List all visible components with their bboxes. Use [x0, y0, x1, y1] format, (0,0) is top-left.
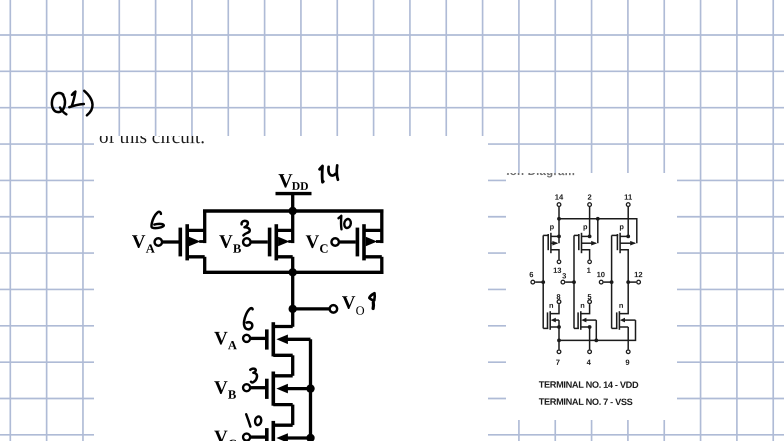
- input terminal circle Q2 (V_B): [243, 238, 251, 246]
- wire NMOS body bus: [309, 339, 312, 441]
- pin 14 terminal (top): [555, 193, 564, 207]
- junction dot gate line 3: [610, 280, 614, 284]
- wire bottom rail (PMOS drains): [203, 271, 384, 274]
- pin 12 terminal and lead: [628, 270, 642, 284]
- svg-text:V: V: [219, 232, 233, 253]
- junction dot VDD / top rail: [289, 207, 297, 215]
- svg-text:p: p: [619, 222, 624, 231]
- note TERMINAL NO. 14 - VDD: [539, 380, 639, 390]
- label V_A (PMOS input): [132, 232, 155, 256]
- svg-text:V: V: [214, 378, 228, 399]
- handwritten pin number 14 at VDD: [320, 165, 338, 182]
- pasted white screenshot: main CMOS circuit: [94, 136, 488, 441]
- svg-text:p: p: [583, 222, 588, 231]
- svg-text:A: A: [228, 338, 237, 352]
- label V_C (NMOS input): [214, 427, 237, 441]
- svg-text:TERMINAL NO. 14 - VDD: TERMINAL NO. 14 - VDD: [539, 380, 639, 390]
- wire pin lead into P1: [558, 207, 560, 243]
- pin 11 terminal (top): [624, 193, 633, 207]
- junction dot bottom rail / output: [289, 268, 297, 276]
- wire pin lead into P3: [627, 207, 629, 236]
- junction dot output node: [289, 305, 297, 313]
- wire output vertical: [291, 272, 294, 327]
- nmos transistor Q5 (V_B): [267, 372, 311, 426]
- wire gate lead Q1 (V_A): [163, 240, 179, 243]
- svg-text:V: V: [214, 328, 228, 349]
- label V_A (NMOS input): [214, 328, 237, 352]
- svg-text:n: n: [580, 301, 585, 310]
- input terminal circle V_B (NMOS): [243, 384, 250, 391]
- svg-text:6: 6: [529, 270, 533, 279]
- nmos transistor N2: [574, 282, 598, 349]
- nmos transistor Q6 (V_C): [267, 421, 311, 441]
- pin 1 terminal: [587, 260, 592, 275]
- handwritten W/L at NMOS Q5 (V_B): [250, 369, 257, 383]
- handwritten W/L 6 at PMOS Q1 (V_A): [151, 212, 163, 228]
- wire PMOS P2 body tie vertical: [597, 219, 599, 243]
- pin 6 terminal and lead: [529, 270, 543, 284]
- svg-text:B: B: [233, 242, 242, 256]
- pin 13 terminal: [553, 260, 561, 275]
- junction dot source P2: [588, 235, 592, 239]
- junction dot gate line 2: [572, 280, 576, 284]
- pmos transistor Q2 (V_B): [270, 211, 293, 272]
- svg-text:12: 12: [634, 270, 642, 279]
- handwritten W/L at NMOS Q4 (V_A): [244, 308, 253, 329]
- pin 7 terminal (bottom): [556, 350, 561, 367]
- label p (P1): [550, 222, 555, 231]
- pin 2 terminal (top): [587, 193, 591, 207]
- handwritten pin number 8 at V_O: [369, 293, 374, 308]
- junction dot pin14/VDD bus: [557, 217, 561, 221]
- label V_B (PMOS input): [219, 232, 242, 256]
- label p (P2): [583, 222, 588, 231]
- wire VDD to PMOS rail: [291, 194, 294, 211]
- wire gate lead V_A (NMOS): [251, 337, 265, 340]
- label V_C (PMOS input): [305, 232, 328, 256]
- wire gate lead V_C (NMOS): [251, 435, 265, 438]
- input terminal circle Q1 (V_A): [155, 238, 163, 246]
- handwritten W/L 10 at PMOS Q3 (V_C): [339, 216, 351, 230]
- nmos transistor N1: [543, 282, 561, 349]
- label V_B (NMOS input): [214, 378, 237, 402]
- wire pin lead into P2: [589, 207, 591, 236]
- junction dot source P3: [626, 235, 630, 239]
- svg-text:DD: DD: [292, 180, 309, 193]
- svg-text:B: B: [228, 388, 237, 402]
- pmos transistor P2: [574, 233, 597, 282]
- wire gate lead Q3 (V_C): [340, 240, 356, 243]
- svg-text:10: 10: [597, 270, 605, 279]
- junction dot output node (pin 12): [626, 280, 630, 284]
- junction dot body bus at Q6: [306, 434, 314, 441]
- pin 10 terminal and lead: [597, 270, 612, 284]
- input terminal circle V_A (NMOS): [243, 335, 250, 342]
- svg-text:7: 7: [556, 358, 560, 367]
- wire gate lead V_B (NMOS): [251, 386, 265, 389]
- handwritten W/L at NMOS Q6 (V_C): [246, 414, 261, 426]
- svg-text:V: V: [214, 427, 228, 441]
- svg-text:2: 2: [587, 193, 591, 202]
- wire top rail (PMOS sources to VDD): [203, 209, 384, 212]
- svg-text:A: A: [146, 242, 155, 256]
- junction dot PMOS P2 body tie / VDD bus: [596, 217, 600, 221]
- label p (P3): [619, 222, 624, 231]
- wire VSS bus (right diagram): [559, 320, 636, 340]
- power symbol VDD bar: [276, 192, 312, 195]
- pmos transistor P1: [543, 233, 559, 282]
- svg-text:4: 4: [587, 358, 592, 367]
- note TERMINAL NO. 7 - VSS: [539, 397, 633, 407]
- svg-text:n: n: [549, 301, 554, 310]
- net label V_DD: [278, 170, 308, 193]
- svg-text:1: 1: [587, 266, 592, 275]
- wire to output terminal: [293, 307, 330, 310]
- pin 5 terminal: [587, 292, 592, 303]
- pin 8 terminal: [556, 292, 560, 303]
- svg-text:V: V: [305, 232, 319, 253]
- svg-text:O: O: [356, 304, 365, 318]
- wire VDD bus (right diagram): [559, 219, 637, 243]
- svg-text:V: V: [342, 293, 356, 314]
- wire gate lead Q2 (V_B): [251, 240, 267, 243]
- svg-text:13: 13: [553, 266, 561, 275]
- pmos transistor P3: [612, 233, 637, 282]
- nmos transistor Q4 (V_A): [267, 322, 311, 376]
- pin 3 terminal and lead: [561, 271, 574, 284]
- svg-text:n: n: [619, 301, 624, 310]
- svg-text:11: 11: [624, 193, 633, 202]
- input terminal circle V_C (NMOS): [243, 434, 250, 441]
- pmos transistor Q1 (V_A): [180, 211, 204, 272]
- svg-text:9: 9: [625, 358, 629, 367]
- pmos transistor Q3 (V_C): [357, 211, 381, 272]
- svg-text:14: 14: [555, 193, 564, 202]
- handwritten label Q1): [52, 91, 93, 116]
- svg-text:C: C: [228, 437, 237, 441]
- nmos transistor N3: [612, 282, 636, 349]
- svg-text:p: p: [550, 222, 555, 231]
- svg-text:V: V: [132, 232, 146, 253]
- junction dot source P1: [557, 235, 561, 239]
- output terminal circle V_O: [330, 305, 338, 313]
- junction dot gate line 1: [541, 280, 545, 284]
- handwritten W/L 3 at PMOS Q2 (V_B): [242, 221, 250, 236]
- input terminal circle Q3 (V_C): [331, 238, 339, 246]
- pin 4 terminal (bottom): [587, 350, 592, 367]
- svg-text:3: 3: [562, 271, 566, 280]
- label V_O: [342, 293, 365, 318]
- svg-text:C: C: [319, 242, 328, 256]
- junction dot body bus at Q5: [306, 384, 314, 392]
- svg-text:TERMINAL NO. 7 - VSS: TERMINAL NO. 7 - VSS: [539, 397, 633, 407]
- pasted white screenshot: CD4007 connection diagram: [506, 173, 677, 420]
- pin 9 terminal (bottom): [625, 350, 630, 367]
